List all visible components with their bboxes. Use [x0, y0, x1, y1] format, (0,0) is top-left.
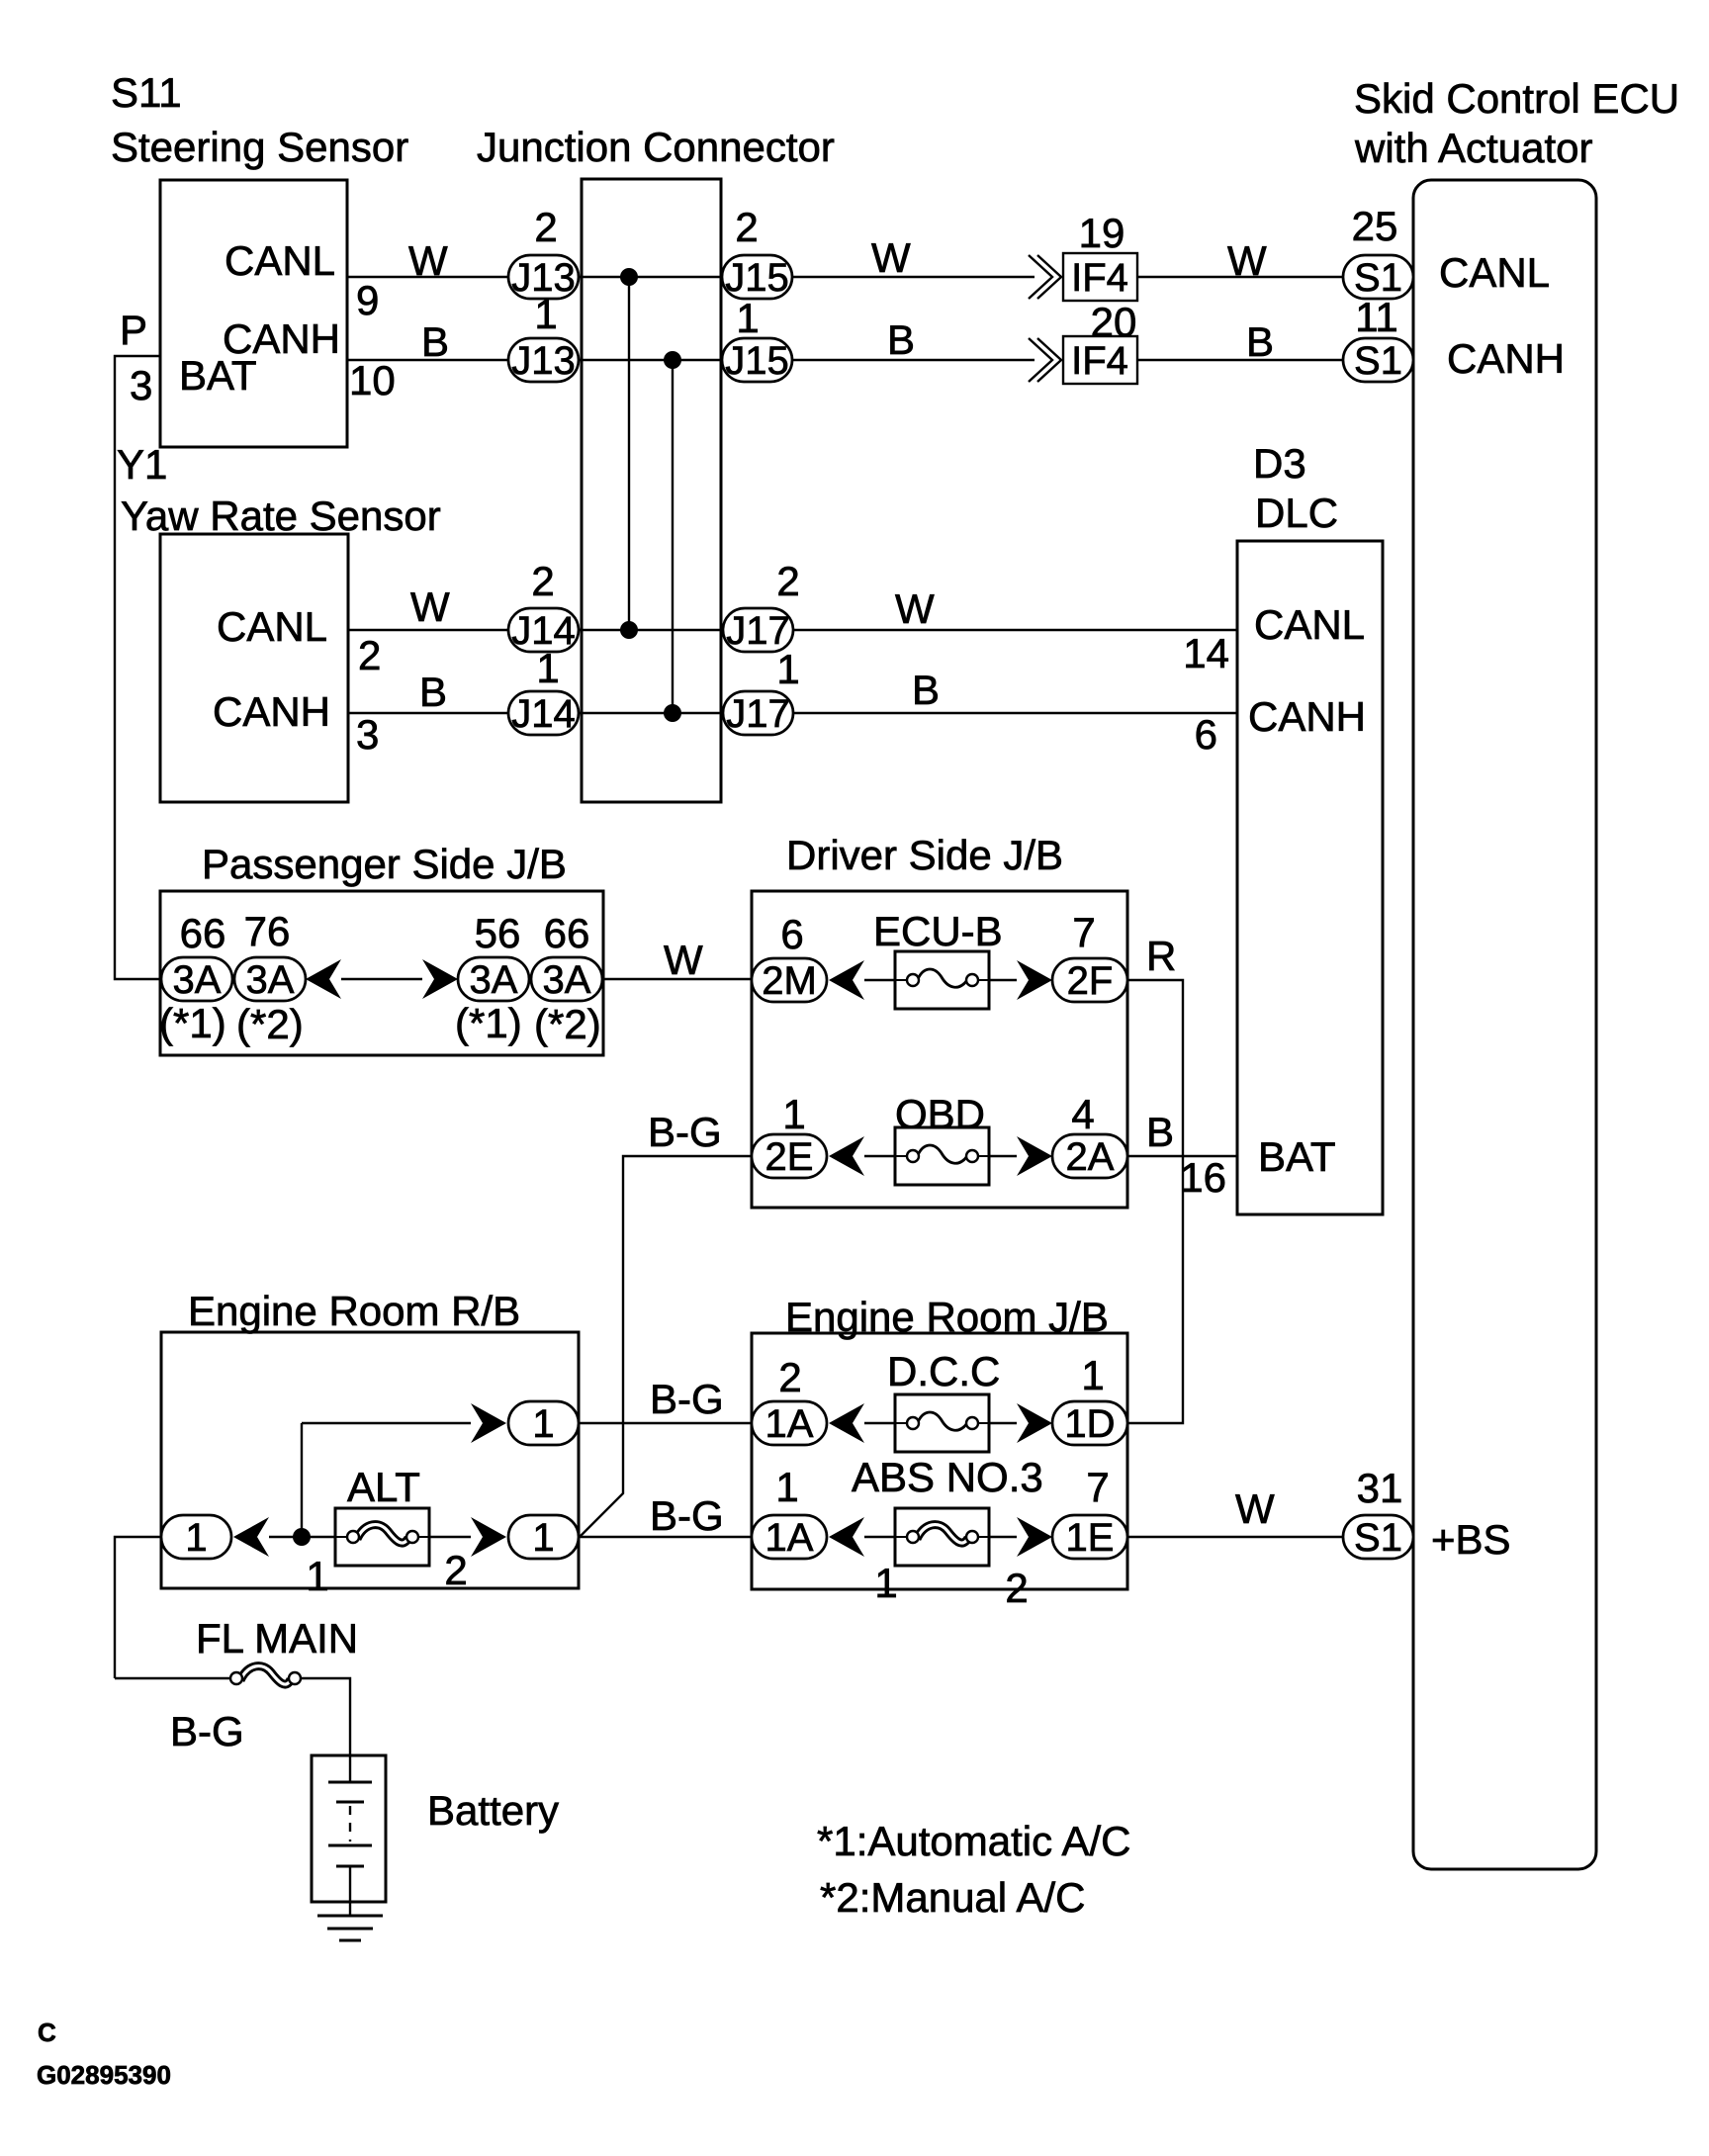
- fusible link FL MAIN: [230, 1666, 301, 1684]
- svg-text:1D: 1D: [1064, 1402, 1115, 1446]
- connector J17 pin2: [723, 608, 793, 653]
- wire passenger J/B to driver J/B (W): [602, 978, 752, 980]
- battery bottom lead: [349, 1866, 351, 1916]
- wire 2A to DLC BAT (B): [1127, 1155, 1237, 1157]
- svg-text:W: W: [664, 937, 703, 983]
- wire 2F to 1D (R): [1127, 980, 1183, 1423]
- svg-text:(*1): (*1): [455, 1000, 522, 1046]
- connector 2F pin7: [1052, 958, 1127, 1003]
- wire to FL MAIN: [115, 1677, 230, 1679]
- wire J13 to J15 (CANH): [579, 359, 722, 361]
- svg-text:R: R: [1146, 933, 1176, 979]
- svg-text:31: 31: [1357, 1465, 1403, 1511]
- junction node yaw CANL: [620, 621, 638, 639]
- driver side J/B box: [752, 891, 1127, 1208]
- svg-text:1: 1: [306, 1553, 328, 1599]
- wire yaw CANL to J14: [348, 629, 508, 631]
- svg-text:ABS NO.3: ABS NO.3: [852, 1454, 1043, 1500]
- fuse OBD: [895, 1127, 989, 1185]
- connector 3A pin76 (*2): [234, 957, 306, 1002]
- svg-text:W: W: [895, 585, 935, 632]
- wire yaw CANH to J14: [348, 712, 508, 714]
- battery plate short: [336, 1801, 364, 1804]
- terminal arrow right: [1017, 1136, 1052, 1176]
- fusible link ALT: [335, 1508, 429, 1566]
- connector S1 pin31: [1343, 1515, 1413, 1560]
- terminal arrow left: [829, 1517, 864, 1557]
- svg-text:Engine Room R/B: Engine Room R/B: [188, 1288, 520, 1334]
- svg-text:3: 3: [356, 711, 379, 758]
- svg-text:6: 6: [780, 911, 803, 957]
- wire to ALT fuse: [269, 1536, 335, 1538]
- connector J13 pin1: [508, 338, 579, 383]
- svg-text:2: 2: [444, 1547, 467, 1593]
- junction node yaw CANH: [664, 704, 681, 722]
- svg-text:Battery: Battery: [427, 1787, 559, 1834]
- junction node CANL: [620, 268, 638, 286]
- svg-text:CANL: CANL: [217, 603, 327, 650]
- svg-text:3A: 3A: [173, 958, 222, 1002]
- engine room J/B box: [752, 1333, 1127, 1589]
- svg-text:IF4: IF4: [1071, 256, 1128, 300]
- svg-text:1A: 1A: [765, 1402, 814, 1446]
- svg-text:(*2): (*2): [236, 1001, 304, 1047]
- svg-text:2: 2: [778, 1354, 801, 1400]
- svg-text:16: 16: [1180, 1154, 1226, 1201]
- svg-text:S1: S1: [1354, 339, 1402, 383]
- svg-text:CANH: CANH: [1447, 335, 1565, 382]
- svg-text:1: 1: [736, 295, 759, 341]
- junction node ALT feed: [293, 1528, 311, 1546]
- connector J13 pin2: [508, 255, 579, 300]
- svg-text:25: 25: [1352, 203, 1398, 249]
- svg-text:1: 1: [775, 1464, 798, 1510]
- wire 2E to OBD fuse: [864, 1155, 895, 1157]
- connector 1 (upper output): [508, 1401, 579, 1446]
- branch vertical: [301, 1423, 303, 1537]
- svg-text:2: 2: [776, 558, 799, 604]
- terminal arrow left: [829, 1403, 864, 1443]
- steering sensor box S11: [160, 180, 347, 447]
- inline connector chevrons IF4 row1: [1029, 255, 1052, 299]
- terminal arrow left: [829, 1136, 864, 1176]
- svg-text:19: 19: [1079, 210, 1125, 256]
- svg-text:2: 2: [531, 558, 554, 604]
- svg-text:W: W: [871, 234, 911, 281]
- wire J17 to DLC CANL: [793, 629, 1237, 631]
- svg-text:CANL: CANL: [225, 237, 335, 284]
- inline connector IF4 (pin19): [1063, 253, 1137, 301]
- terminal arrow left: [829, 960, 864, 1000]
- svg-text:B: B: [1146, 1109, 1174, 1155]
- svg-text:DLC: DLC: [1255, 490, 1338, 536]
- battery plate short: [336, 1865, 364, 1868]
- connector 1A pin1: [752, 1515, 827, 1560]
- svg-text:IF4: IF4: [1071, 339, 1128, 383]
- wire D.C.C fuse to 1D: [989, 1422, 1017, 1424]
- wire ABS fuse to 1E: [989, 1536, 1017, 1538]
- svg-text:10: 10: [349, 357, 396, 404]
- terminal arrow right: [471, 1517, 506, 1557]
- battery top lead: [349, 1755, 351, 1782]
- svg-text:3: 3: [130, 362, 152, 408]
- yaw rate sensor box Y1: [160, 534, 348, 802]
- terminal arrow left: [306, 959, 341, 999]
- svg-text:G02895390: G02895390: [37, 2060, 171, 2090]
- wire 2E down to engine room R/B (B-G): [580, 1156, 752, 1537]
- wire J13 to J15 (CANL): [579, 276, 722, 278]
- connector 3A pin66 (*1): [161, 957, 232, 1002]
- svg-text:D3: D3: [1253, 440, 1306, 487]
- wire R/B to 1A ABS NO.3 (B-G): [579, 1536, 752, 1538]
- svg-text:J14: J14: [511, 692, 576, 736]
- svg-text:20: 20: [1091, 299, 1137, 345]
- connector 1 (ALT output): [508, 1515, 579, 1560]
- connector 2E pin1: [752, 1134, 827, 1179]
- terminal arrow right: [471, 1403, 506, 1443]
- connector J15 pin2: [722, 255, 792, 300]
- wire ALT fuse to output: [429, 1536, 471, 1538]
- svg-text:B: B: [1246, 318, 1274, 365]
- wire 1A to ABS NO.3 fuse: [864, 1536, 895, 1538]
- svg-text:3A: 3A: [543, 958, 591, 1002]
- svg-text:76: 76: [244, 908, 291, 954]
- svg-text:CANH: CANH: [213, 688, 330, 735]
- svg-text:Y1: Y1: [117, 441, 167, 488]
- svg-text:D.C.C: D.C.C: [887, 1348, 1000, 1394]
- battery box: [312, 1755, 386, 1902]
- wire steering BAT pin3 down to passenger J/B: [115, 356, 161, 979]
- junction connector internal wire CANL: [628, 277, 630, 630]
- svg-text:+BS: +BS: [1431, 1516, 1511, 1563]
- svg-text:2M: 2M: [762, 959, 817, 1003]
- svg-text:2: 2: [735, 204, 758, 250]
- svg-text:1: 1: [532, 1402, 554, 1446]
- connector 1E pin7: [1052, 1515, 1127, 1560]
- svg-text:66: 66: [544, 910, 590, 956]
- passenger side J/B box: [160, 891, 603, 1055]
- svg-text:with Actuator: with Actuator: [1354, 125, 1592, 171]
- inline connector IF4 (pin20): [1063, 336, 1137, 384]
- svg-text:Junction Connector: Junction Connector: [477, 124, 835, 170]
- battery plate long: [328, 1844, 372, 1847]
- connector 3A pin56 (*1): [458, 957, 529, 1002]
- svg-text:(*1): (*1): [159, 1000, 226, 1046]
- wire OBD fuse to 2A: [989, 1155, 1017, 1157]
- svg-text:1: 1: [782, 1091, 805, 1137]
- svg-text:CANL: CANL: [1254, 601, 1365, 648]
- svg-text:B: B: [887, 316, 915, 363]
- svg-text:1: 1: [536, 645, 559, 691]
- svg-text:3A: 3A: [246, 958, 295, 1002]
- svg-text:W: W: [410, 584, 450, 630]
- wire IF4 to S1 CANH: [1137, 359, 1343, 361]
- svg-text:CANL: CANL: [1439, 249, 1550, 296]
- wire 1E to S1 +BS (W): [1127, 1536, 1343, 1538]
- svg-text:B: B: [419, 669, 447, 715]
- wire ECU-B fuse to 2F: [989, 979, 1017, 981]
- wire R/B to 1A D.C.C (B-G): [579, 1422, 752, 1424]
- svg-text:14: 14: [1183, 630, 1229, 676]
- svg-text:11: 11: [1355, 294, 1398, 340]
- junction connector box: [582, 179, 721, 802]
- terminal arrow right: [1017, 1517, 1052, 1557]
- svg-text:C: C: [38, 2018, 56, 2047]
- svg-text:Driver Side J/B: Driver Side J/B: [786, 832, 1063, 878]
- svg-text:2A: 2A: [1066, 1135, 1115, 1179]
- connector J14 pin2: [508, 608, 579, 653]
- wire branch to upper output: [302, 1422, 471, 1424]
- wire steering CANH to J13: [347, 359, 508, 361]
- svg-text:7: 7: [1086, 1464, 1109, 1510]
- svg-text:B-G: B-G: [650, 1492, 724, 1539]
- wire FL MAIN to battery: [301, 1678, 350, 1755]
- connector J15 pin1: [722, 338, 792, 383]
- svg-text:66: 66: [180, 910, 226, 956]
- connector S1 pin25: [1343, 255, 1413, 300]
- junction connector internal wire CANH: [672, 360, 674, 713]
- DLC box D3: [1237, 541, 1383, 1214]
- svg-text:W: W: [408, 237, 448, 284]
- battery plate long: [328, 1781, 372, 1784]
- svg-text:J15: J15: [725, 256, 789, 300]
- svg-text:1: 1: [874, 1560, 897, 1606]
- svg-text:2F: 2F: [1067, 959, 1114, 1003]
- connector S1 pin11: [1343, 338, 1413, 383]
- svg-text:Steering Sensor: Steering Sensor: [111, 124, 408, 170]
- svg-text:1: 1: [532, 1516, 554, 1560]
- svg-text:2: 2: [358, 632, 381, 678]
- svg-text:Skid Control ECU: Skid Control ECU: [1354, 75, 1679, 122]
- svg-text:J17: J17: [726, 692, 790, 736]
- terminal arrow right: [1017, 960, 1052, 1000]
- svg-text:J13: J13: [511, 339, 576, 383]
- svg-text:*2:Manual A/C: *2:Manual A/C: [820, 1874, 1086, 1921]
- svg-text:2E: 2E: [765, 1135, 814, 1179]
- skid control ECU box: [1413, 180, 1596, 1869]
- ground: [317, 1915, 383, 1918]
- wire battery input to FL MAIN: [115, 1537, 161, 1678]
- svg-text:9: 9: [356, 277, 379, 323]
- svg-text:BAT: BAT: [1258, 1133, 1336, 1180]
- svg-text:B-G: B-G: [170, 1708, 244, 1754]
- wire inside passenger J/B: [341, 978, 422, 980]
- svg-text:(*2): (*2): [534, 1001, 601, 1047]
- connector J17 pin1: [723, 691, 793, 736]
- svg-text:*1:Automatic A/C: *1:Automatic A/C: [817, 1818, 1130, 1864]
- svg-text:1: 1: [185, 1516, 207, 1560]
- svg-text:7: 7: [1072, 909, 1095, 955]
- svg-text:2: 2: [534, 204, 557, 250]
- svg-text:ECU-B: ECU-B: [873, 908, 1003, 954]
- svg-text:6: 6: [1195, 711, 1217, 758]
- fuse D.C.C: [895, 1394, 989, 1452]
- connector 1 (battery input): [161, 1515, 231, 1560]
- svg-text:1: 1: [776, 646, 799, 692]
- wire J17 to DLC CANH: [793, 712, 1237, 714]
- svg-text:1: 1: [1081, 1352, 1104, 1398]
- svg-text:Passenger Side J/B: Passenger Side J/B: [202, 841, 567, 887]
- terminal arrow right: [1017, 1403, 1052, 1443]
- svg-text:Engine Room J/B: Engine Room J/B: [785, 1294, 1109, 1340]
- svg-text:B-G: B-G: [650, 1376, 724, 1422]
- svg-text:1A: 1A: [765, 1516, 814, 1560]
- svg-text:W: W: [1227, 237, 1267, 284]
- svg-text:P: P: [120, 307, 147, 353]
- wire steering CANL to J13: [347, 276, 508, 278]
- connector J14 pin1: [508, 691, 579, 736]
- wire 2M to ECU-B fuse: [864, 979, 895, 981]
- svg-text:2: 2: [1005, 1565, 1028, 1611]
- wire J15 to IF4 (B): [792, 359, 1034, 361]
- terminal arrow left: [233, 1517, 269, 1557]
- fusible link ABS NO.3: [895, 1508, 989, 1566]
- connector 2A pin4: [1052, 1134, 1127, 1179]
- fuse ECU-B: [895, 951, 989, 1009]
- connector 2M pin6: [752, 958, 827, 1003]
- svg-text:4: 4: [1071, 1091, 1094, 1137]
- engine room R/B box: [161, 1332, 579, 1588]
- svg-text:FL MAIN: FL MAIN: [196, 1615, 358, 1662]
- svg-text:S1: S1: [1354, 1516, 1402, 1560]
- junction node CANH: [664, 351, 681, 369]
- wire J15 to IF4 (W): [792, 276, 1034, 278]
- inline connector chevrons IF4 row2: [1029, 338, 1052, 382]
- terminal arrow right: [422, 959, 458, 999]
- svg-text:W: W: [1235, 1485, 1275, 1532]
- svg-text:BAT: BAT: [179, 352, 257, 399]
- wire 1A to D.C.C fuse: [864, 1422, 895, 1424]
- svg-text:3A: 3A: [470, 958, 518, 1002]
- connector 3A pin66 (*2): [531, 957, 602, 1002]
- svg-text:1: 1: [534, 291, 557, 337]
- wire J14 to J17 (CANL): [579, 629, 723, 631]
- svg-text:J15: J15: [725, 339, 789, 383]
- svg-text:1E: 1E: [1066, 1516, 1115, 1560]
- svg-text:Yaw Rate Sensor: Yaw Rate Sensor: [121, 493, 441, 539]
- wire IF4 to S1 CANL: [1137, 276, 1343, 278]
- svg-text:CANH: CANH: [1248, 693, 1366, 740]
- svg-text:B: B: [912, 667, 940, 713]
- connector 1A pin2: [752, 1401, 827, 1446]
- svg-text:ALT: ALT: [347, 1464, 420, 1510]
- svg-text:B-G: B-G: [648, 1109, 722, 1155]
- wire J14 to J17 (CANH): [579, 712, 723, 714]
- svg-text:S11: S11: [111, 69, 182, 116]
- svg-text:56: 56: [475, 910, 521, 956]
- svg-text:B: B: [421, 318, 449, 365]
- connector 1D pin1: [1052, 1401, 1127, 1446]
